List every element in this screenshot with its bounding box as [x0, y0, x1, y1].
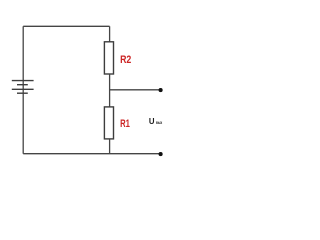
wire: vertical from R1 to bottom wire [109, 139, 111, 154]
svg-text:вых: вых [156, 120, 162, 125]
node: output terminal dot (lower) [159, 152, 163, 156]
svg-text:U: U [149, 117, 155, 126]
node: output terminal dot (upper) [159, 88, 163, 92]
wire: right vertical from top wire to R2 [109, 26, 111, 42]
wire: output tap horizontal from divider midpoint [110, 89, 160, 91]
svg-text:R1: R1 [120, 118, 130, 130]
wire: left vertical (battery branch) [22, 26, 24, 153]
label R1 [120, 118, 130, 130]
svg-text:R2: R2 [120, 54, 131, 66]
label R2 [120, 54, 131, 66]
resistor R1 (box) [104, 107, 113, 139]
wire: vertical between R2 and R1 [109, 74, 111, 107]
wire: bottom horizontal [23, 153, 160, 155]
battery B1 (two-cell symbol on left branch) [12, 81, 34, 94]
resistor R2 (box) [104, 42, 113, 74]
label U вых (output voltage) [149, 117, 163, 126]
wire: top horizontal from battery branch to resistor branch [23, 25, 109, 27]
